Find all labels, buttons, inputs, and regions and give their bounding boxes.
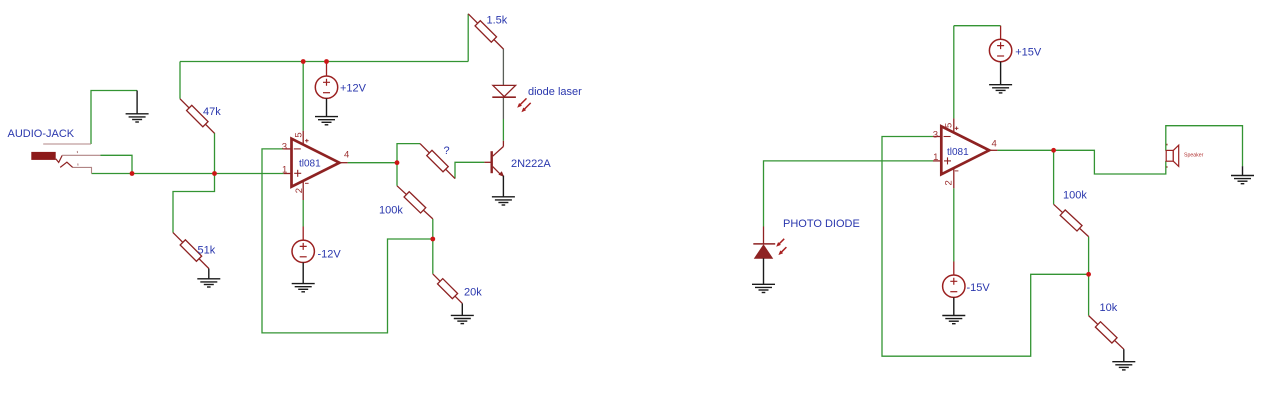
node junction (feedback divider) bbox=[430, 237, 435, 242]
COMPONENTS-RIGHT bbox=[752, 26, 1254, 370]
wire 47k bottom to input node bbox=[214, 133, 216, 174]
svg-text:Speaker: Speaker bbox=[1184, 153, 1204, 159]
svg-text:5: 5 bbox=[294, 132, 305, 137]
wire rail to 1.5k bbox=[467, 14, 469, 62]
wire jack sleeve to ground bbox=[91, 91, 137, 145]
svg-text:2: 2 bbox=[944, 180, 955, 185]
resistor 1.5k bbox=[468, 14, 503, 49]
svg-text:3: 3 bbox=[933, 129, 938, 140]
wire rail to 47k top bbox=[179, 62, 181, 99]
svg-text:47k: 47k bbox=[203, 106, 221, 118]
source V2 -12V bbox=[292, 227, 315, 292]
transistor Q1 2N222A bbox=[484, 141, 515, 205]
wire 100k to feedback node bbox=[432, 219, 434, 239]
svg-text:1.5k: 1.5k bbox=[487, 15, 508, 27]
wire feedback node to 20k bbox=[432, 239, 434, 274]
svg-text:+15V: +15V bbox=[1015, 46, 1042, 58]
op-amp U1 tl081 bbox=[282, 131, 349, 200]
wire output node to 100k bbox=[1053, 150, 1055, 204]
WIRES-LEFT bbox=[91, 14, 503, 333]
op-amp U2 tl081 bbox=[933, 118, 998, 188]
wire 1.5k to diode laser anode bbox=[502, 49, 504, 86]
svg-text:20k: 20k bbox=[464, 286, 482, 298]
ground (10k) bbox=[1112, 349, 1135, 370]
photodiode D2 bbox=[752, 227, 786, 293]
ground (20k) bbox=[451, 303, 474, 323]
svg-text:+12V: +12V bbox=[340, 82, 367, 94]
wire top supply rail bbox=[180, 61, 468, 63]
resistor 51k bbox=[173, 233, 209, 269]
wire pin 5 to rail bbox=[953, 26, 955, 119]
svg-text:51k: 51k bbox=[198, 245, 216, 257]
source V3 +15V bbox=[989, 26, 1012, 93]
wire divider node to 10k bbox=[1088, 274, 1090, 315]
speaker LS1 bbox=[1166, 144, 1179, 168]
svg-text:5: 5 bbox=[944, 123, 955, 128]
wire pin 2 to -12V bbox=[302, 200, 304, 227]
wire output node to 100k bbox=[396, 163, 398, 186]
resistor 100k (right) bbox=[1054, 204, 1089, 236]
resistor 20k bbox=[433, 274, 463, 304]
svg-text:tl081: tl081 bbox=[299, 158, 321, 169]
wire ? resistor to transistor base bbox=[455, 162, 484, 178]
wire op-amp pin 3 feedback net bbox=[262, 149, 433, 333]
svg-text:-15V: -15V bbox=[967, 282, 991, 294]
svg-text:tl081: tl081 bbox=[947, 147, 969, 158]
svg-text:diode laser: diode laser bbox=[528, 86, 582, 98]
ground (51k) bbox=[197, 269, 220, 288]
ground (speaker) bbox=[1231, 166, 1254, 184]
node junction (divider right) bbox=[1086, 272, 1091, 277]
diode laser D1 bbox=[492, 85, 530, 112]
svg-text:1: 1 bbox=[933, 152, 938, 163]
source V4 -15V bbox=[942, 262, 965, 324]
svg-text:100k: 100k bbox=[379, 205, 403, 217]
wire output node to ? resistor bbox=[397, 144, 420, 163]
wire node to 51k bbox=[173, 174, 215, 233]
WIRES-RIGHT bbox=[764, 26, 1243, 357]
COMPONENTS-LEFT bbox=[8, 14, 583, 324]
svg-text:2N222A: 2N222A bbox=[511, 158, 551, 170]
wire pin 3 feedback net bbox=[882, 137, 1089, 357]
svg-text:100k: 100k bbox=[1063, 189, 1087, 201]
source V1 +12V bbox=[315, 62, 338, 125]
wire +15V rail bbox=[954, 25, 1001, 27]
svg-text:1: 1 bbox=[282, 165, 287, 176]
node junction (jack tip) bbox=[130, 171, 135, 176]
wire pin 1 to photodiode bbox=[764, 161, 934, 227]
connector J1 audio jack bbox=[31, 144, 100, 174]
node junction (rail +12V) bbox=[324, 59, 329, 64]
wire 100k to divider node bbox=[1088, 237, 1090, 275]
svg-text:4: 4 bbox=[992, 139, 997, 150]
wire diode laser cathode down bbox=[502, 97, 504, 119]
svg-text:2: 2 bbox=[294, 188, 305, 193]
wire input node row to op-amp pin 1 bbox=[92, 173, 284, 175]
svg-text:10k: 10k bbox=[1100, 302, 1118, 314]
svg-text:4: 4 bbox=[344, 150, 349, 161]
node junction (rail pin5) bbox=[301, 59, 306, 64]
resistor 10k bbox=[1089, 316, 1124, 350]
wire collector segment bbox=[502, 119, 504, 141]
wire pin 5 to rail bbox=[302, 62, 304, 131]
resistor 100k (left) bbox=[397, 186, 433, 219]
svg-text:AUDIO-JACK: AUDIO-JACK bbox=[8, 128, 75, 140]
svg-text:3: 3 bbox=[282, 141, 287, 152]
ground (jack sleeve) bbox=[126, 91, 149, 123]
wire speaker top to ground bbox=[1166, 126, 1243, 167]
resistor ? bbox=[420, 144, 455, 179]
node junction (output) bbox=[395, 160, 400, 165]
wire jack tip to node bbox=[101, 155, 133, 173]
svg-text:PHOTO DIODE: PHOTO DIODE bbox=[783, 218, 860, 230]
node junction (input node) bbox=[212, 171, 217, 176]
svg-text:-12V: -12V bbox=[318, 249, 342, 261]
wire op-amp output bbox=[997, 149, 1053, 151]
node junction (output right) bbox=[1051, 148, 1056, 153]
wire output node to speaker bbox=[1054, 150, 1166, 174]
resistor 47k bbox=[180, 99, 215, 134]
svg-text:?: ? bbox=[444, 145, 450, 157]
wire op-amp output bbox=[348, 162, 397, 164]
wire pin 2 to -15V bbox=[953, 188, 955, 261]
